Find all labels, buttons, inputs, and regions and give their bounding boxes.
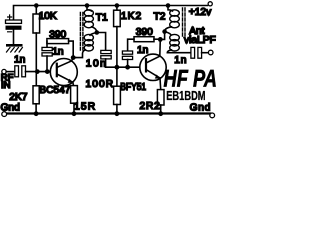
svg-text:10K: 10K <box>39 11 57 22</box>
svg-text:+12v: +12v <box>189 7 212 18</box>
svg-text:2R2: 2R2 <box>140 101 161 112</box>
svg-text:Gnd: Gnd <box>190 102 211 113</box>
svg-text:T1: T1 <box>96 12 108 23</box>
svg-text:10n: 10n <box>86 59 108 70</box>
svg-text:1n: 1n <box>174 55 187 66</box>
transformer T2 primary <box>168 6 173 12</box>
wire 390-2 to collector <box>154 38 160 40</box>
capacitor 1n feedback1 <box>46 41 48 47</box>
svg-text:2K7: 2K7 <box>9 92 27 103</box>
transformer T1 primary <box>87 6 92 12</box>
node rail-1K2 <box>115 3 120 8</box>
svg-text:1n: 1n <box>137 45 148 56</box>
capacitor 10n coupling <box>101 50 111 53</box>
terminal +12v <box>208 2 212 6</box>
svg-text:1n: 1n <box>52 46 63 57</box>
node rail-10K <box>34 3 39 8</box>
wire T1 tap to C coupling <box>97 33 106 51</box>
capacitor C-decoupling electrolytic <box>6 20 22 23</box>
transformer T1 secondary <box>90 33 97 36</box>
svg-text:IN: IN <box>1 80 11 91</box>
svg-text:15R: 15R <box>74 101 96 112</box>
svg-text:T2: T2 <box>154 12 166 23</box>
svg-text:BC547: BC547 <box>39 85 70 96</box>
core T2 <box>182 8 184 36</box>
transistor Q2 BFY51 <box>140 54 166 80</box>
resistor 2K7 <box>35 72 37 86</box>
resistor 1K2 <box>116 6 118 11</box>
resistor 15R <box>71 86 78 104</box>
wire +12V top rail <box>14 6 208 21</box>
svg-text:EB1BDM: EB1BDM <box>166 88 205 103</box>
terminal Gnd left <box>2 112 7 117</box>
svg-text:100R: 100R <box>86 79 115 90</box>
wire base bus Q2 <box>106 66 140 68</box>
node base-feedback <box>45 69 50 74</box>
node bus-1K2 <box>115 65 120 70</box>
wire ground bottom rail <box>6 112 210 114</box>
wire T2 tap to collector <box>160 32 164 40</box>
wire <box>6 71 15 73</box>
node collector Q1 <box>71 55 76 60</box>
svg-text:viaLPF: viaLPF <box>184 35 216 46</box>
node gnd-100R <box>115 111 120 116</box>
wire 390 to collector <box>69 41 74 58</box>
terminal RF IN <box>2 69 6 73</box>
core T1 <box>79 13 81 51</box>
terminal Gnd right <box>210 113 215 118</box>
ground <box>6 44 23 47</box>
svg-text:1n: 1n <box>14 55 25 66</box>
wire <box>13 30 15 44</box>
capacitor 1n feedback2 <box>122 51 132 54</box>
wire 10K to base <box>35 33 37 72</box>
transistor Q1 BC547 <box>50 59 77 86</box>
transformer T2 secondary <box>165 32 171 35</box>
node gnd-15R <box>72 111 77 116</box>
node rail-T2 <box>166 3 171 8</box>
node T1 tap <box>95 30 100 35</box>
node bus-feedback2 <box>125 65 130 70</box>
node rail-T1 <box>85 3 90 8</box>
svg-text:BFY51: BFY51 <box>120 82 146 93</box>
node collector Q2 <box>158 37 163 42</box>
terminal Ant <box>208 50 213 55</box>
node T2 tap <box>162 29 167 34</box>
node gnd-2K7 <box>34 111 39 116</box>
node base-bias <box>35 69 40 74</box>
node gnd-2R2 <box>158 111 163 116</box>
resistor 100R <box>116 67 118 86</box>
svg-text:1K2: 1K2 <box>121 11 142 22</box>
wire base line <box>26 71 51 73</box>
resistor 10K <box>35 6 37 15</box>
resistor 2R2 <box>157 90 164 105</box>
